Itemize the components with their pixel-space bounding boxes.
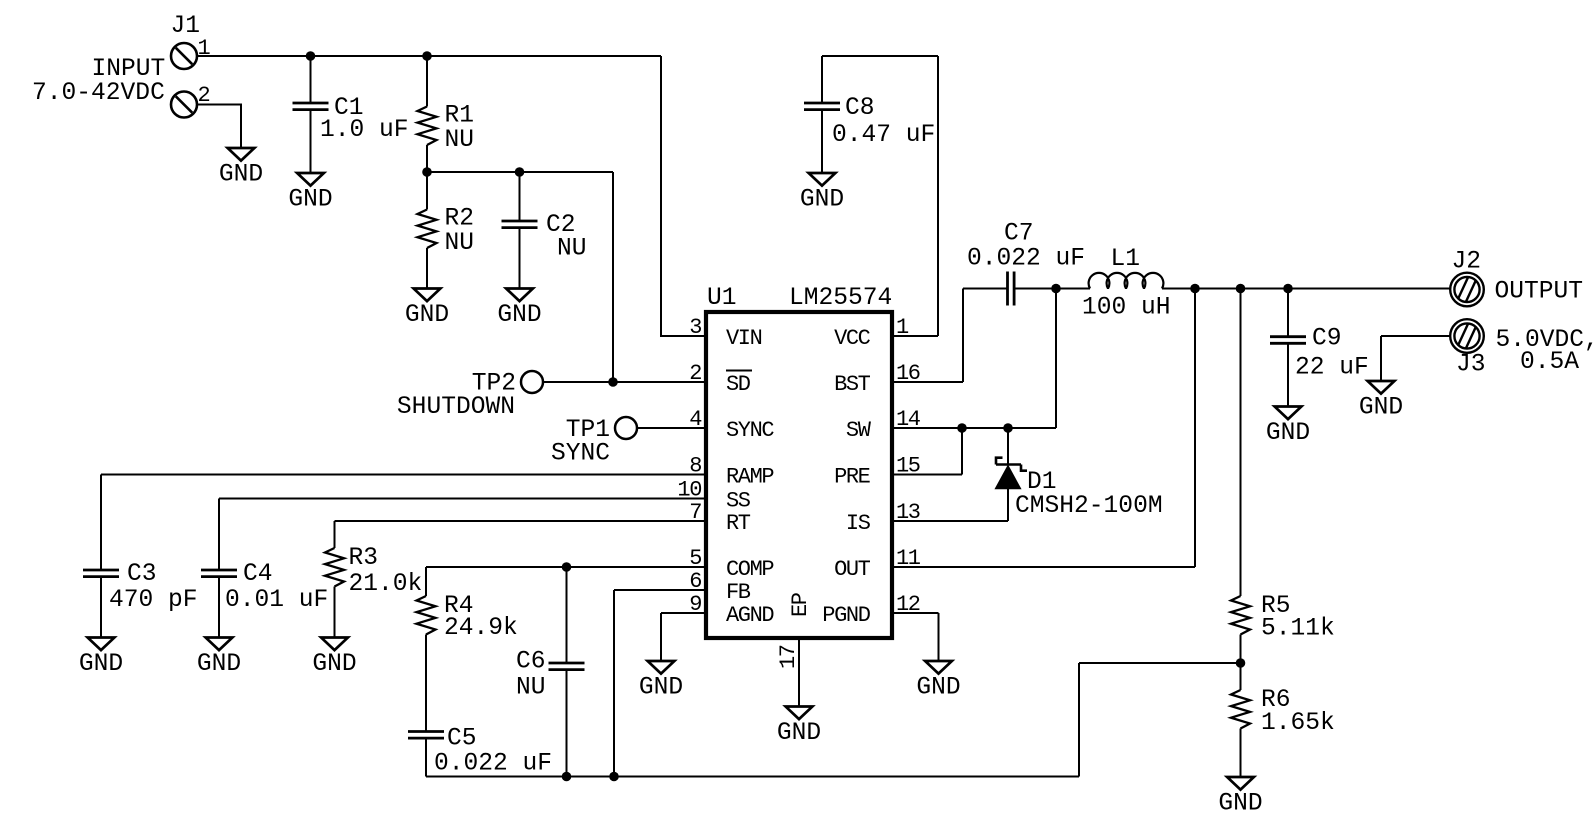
wire PGND pin12 xyxy=(892,613,939,661)
connector J1 xyxy=(32,13,211,118)
svg-text:GND: GND xyxy=(288,187,332,214)
svg-text:C5: C5 xyxy=(447,726,477,753)
svg-text:R1: R1 xyxy=(445,103,475,130)
ground C3 xyxy=(79,638,123,679)
svg-text:0.022 uF: 0.022 uF xyxy=(434,751,552,778)
wire VCC pin1 to C8 xyxy=(822,56,938,336)
wire RT pin7 to R3 xyxy=(335,521,707,548)
svg-text:1.65k: 1.65k xyxy=(1261,710,1335,737)
resistor R3 xyxy=(325,545,422,638)
junction OUT riser xyxy=(1190,284,1200,294)
svg-text:RAMP: RAMP xyxy=(726,465,774,490)
junction C2 top xyxy=(515,167,525,177)
svg-text:24.9k: 24.9k xyxy=(444,615,518,642)
svg-text:GND: GND xyxy=(197,651,241,678)
svg-text:0.022 uF: 0.022 uF xyxy=(967,246,1085,273)
svg-text:AGND: AGND xyxy=(726,603,774,628)
svg-text:GND: GND xyxy=(800,187,844,214)
wire feedback bottom rail xyxy=(426,663,1241,777)
svg-text:SYNC: SYNC xyxy=(726,418,774,443)
svg-text:U1: U1 xyxy=(707,285,737,312)
ground PGND xyxy=(916,661,960,702)
svg-text:GND: GND xyxy=(79,651,123,678)
svg-text:R2: R2 xyxy=(445,206,475,233)
wire TP1 to pin 4 SYNC xyxy=(637,427,706,429)
svg-text:470 pF: 470 pF xyxy=(109,587,198,614)
capacitor C9 xyxy=(1270,289,1369,407)
svg-text:C6: C6 xyxy=(516,649,546,676)
ground R3 xyxy=(312,638,356,679)
svg-text:3: 3 xyxy=(689,315,701,340)
ground J3 xyxy=(1359,381,1403,422)
ground C1 xyxy=(288,173,332,214)
svg-text:C7: C7 xyxy=(1004,221,1034,248)
svg-text:VIN: VIN xyxy=(726,326,762,351)
capacitor C7 xyxy=(967,221,1085,306)
wire EP pin17 xyxy=(798,638,800,707)
svg-text:2: 2 xyxy=(689,361,701,386)
svg-text:1: 1 xyxy=(198,36,211,61)
inductor L1 xyxy=(1082,246,1171,322)
svg-text:J3: J3 xyxy=(1456,352,1486,379)
resistor R6 xyxy=(1231,663,1335,777)
resistor R5 xyxy=(1231,289,1335,664)
svg-text:4: 4 xyxy=(689,407,702,432)
svg-text:SD: SD xyxy=(726,372,751,397)
capacitor C4 xyxy=(201,561,328,638)
svg-text:GND: GND xyxy=(1359,395,1403,422)
ground C2 xyxy=(497,289,541,330)
wire SW pin14 xyxy=(892,427,1056,429)
ground C4 xyxy=(197,638,241,679)
wire RAMP pin8 to C3 xyxy=(101,475,706,571)
test point TP1 SYNC xyxy=(551,417,637,468)
svg-text:LM25574: LM25574 xyxy=(789,285,892,312)
wire SW riser xyxy=(1055,289,1057,429)
junction C6 bottom xyxy=(562,772,572,782)
svg-text:EP: EP xyxy=(788,592,813,617)
capacitor C1 xyxy=(293,56,409,173)
junction C7/L1/SW xyxy=(1051,284,1061,294)
wire TP2 to pin 2 SD xyxy=(543,381,706,383)
svg-text:D1: D1 xyxy=(1027,469,1057,496)
svg-text:L1: L1 xyxy=(1111,246,1141,273)
IC U1 LM25574 body xyxy=(677,285,920,669)
svg-text:5.11k: 5.11k xyxy=(1261,616,1335,643)
resistor R2 xyxy=(418,172,475,288)
svg-text:0.01 uF: 0.01 uF xyxy=(225,587,328,614)
svg-text:GND: GND xyxy=(312,651,356,678)
svg-text:22 uF: 22 uF xyxy=(1295,355,1369,382)
resistor R4 xyxy=(417,593,518,732)
junction C1 top xyxy=(306,51,316,61)
svg-text:GND: GND xyxy=(916,675,960,702)
wire J3 to ground xyxy=(1381,336,1450,381)
wire J1-1 to VIN rail xyxy=(197,55,661,57)
svg-text:SW: SW xyxy=(846,418,872,443)
capacitor C6 xyxy=(516,567,585,777)
junction R1 top xyxy=(422,51,432,61)
svg-text:100 uH: 100 uH xyxy=(1082,295,1171,322)
svg-text:GND: GND xyxy=(639,675,683,702)
wire OUT pin11 xyxy=(892,289,1195,568)
svg-text:PGND: PGND xyxy=(822,603,870,628)
wire COMP pin5 xyxy=(426,567,706,596)
wire AGND pin9 xyxy=(661,613,706,661)
junction C6 top xyxy=(562,562,572,572)
diode D1 xyxy=(892,428,1163,521)
svg-text:GND: GND xyxy=(405,302,449,329)
svg-text:GND: GND xyxy=(219,162,263,189)
svg-text:C4: C4 xyxy=(243,561,273,588)
svg-text:CMSH2-100M: CMSH2-100M xyxy=(1015,493,1163,520)
svg-text:IS: IS xyxy=(846,511,871,536)
svg-text:NU: NU xyxy=(445,230,475,257)
svg-text:J1: J1 xyxy=(171,13,201,40)
wire output rail xyxy=(1162,288,1450,290)
svg-text:0.47 uF: 0.47 uF xyxy=(832,122,935,149)
svg-text:SYNC: SYNC xyxy=(551,441,610,468)
junction C9 top xyxy=(1283,284,1293,294)
svg-text:0.5A: 0.5A xyxy=(1520,349,1579,376)
svg-text:NU: NU xyxy=(516,675,546,702)
SD overline xyxy=(726,370,752,372)
svg-text:PRE: PRE xyxy=(834,465,871,490)
svg-text:7.0-42VDC: 7.0-42VDC xyxy=(32,80,165,107)
ground EP xyxy=(777,707,821,748)
svg-text:BST: BST xyxy=(834,372,871,397)
svg-text:FB: FB xyxy=(726,580,751,605)
svg-text:SHUTDOWN: SHUTDOWN xyxy=(397,394,515,421)
ground C9 xyxy=(1266,407,1310,448)
svg-text:NU: NU xyxy=(445,127,475,154)
connector J3 xyxy=(1450,319,1596,378)
resistor R1 xyxy=(418,56,475,172)
svg-text:RT: RT xyxy=(726,511,751,536)
junction FB bottom xyxy=(609,772,619,782)
ground R6 xyxy=(1218,777,1262,818)
svg-text:GND: GND xyxy=(1218,791,1262,818)
junction R2 top xyxy=(422,167,432,177)
wire C7 to SW node xyxy=(1015,288,1090,290)
ground R2 xyxy=(405,289,449,330)
ground C8 xyxy=(800,173,844,214)
wire BST pin16 to C7 xyxy=(892,289,1007,383)
svg-text:R3: R3 xyxy=(349,545,379,572)
svg-text:INPUT: INPUT xyxy=(92,56,166,83)
svg-text:NU: NU xyxy=(557,236,587,263)
capacitor C3 xyxy=(83,561,198,638)
capacitor C8 xyxy=(804,95,935,173)
junction PRE branch xyxy=(957,423,967,433)
svg-text:OUT: OUT xyxy=(834,557,871,582)
ground J1-2 xyxy=(219,148,263,189)
connector J2 OUTPUT xyxy=(1450,249,1583,307)
wire SS pin10 to C4 xyxy=(219,499,706,571)
svg-text:C3: C3 xyxy=(127,561,157,588)
ground AGND xyxy=(639,661,683,702)
wire FB pin6 riser xyxy=(614,590,706,777)
svg-text:1.0 uF: 1.0 uF xyxy=(320,117,409,144)
wire VIN drop to pin 3 xyxy=(661,56,706,336)
test point TP2 SHUTDOWN xyxy=(397,371,543,422)
svg-text:21.0k: 21.0k xyxy=(349,571,423,598)
svg-text:VCC: VCC xyxy=(834,326,871,351)
svg-text:GND: GND xyxy=(1266,420,1310,447)
wire R1/R2/C2 node xyxy=(427,172,613,382)
junction FB divider xyxy=(1236,658,1246,668)
svg-text:C8: C8 xyxy=(845,95,875,122)
svg-text:17: 17 xyxy=(776,645,801,669)
capacitor C5 xyxy=(408,726,552,778)
svg-text:GND: GND xyxy=(777,720,821,747)
junction D1 branch xyxy=(1003,423,1013,433)
svg-text:COMP: COMP xyxy=(726,557,774,582)
junction R5 top xyxy=(1236,284,1246,294)
svg-text:C9: C9 xyxy=(1312,326,1342,353)
wire PRE pin15 xyxy=(892,428,962,475)
svg-text:J2: J2 xyxy=(1452,249,1482,276)
capacitor C2 xyxy=(502,172,587,288)
svg-text:GND: GND xyxy=(497,302,541,329)
wire J1-2 to ground xyxy=(197,105,241,149)
svg-text:SS: SS xyxy=(726,489,751,514)
svg-text:OUTPUT: OUTPUT xyxy=(1495,279,1584,306)
junction SD node xyxy=(608,377,618,387)
